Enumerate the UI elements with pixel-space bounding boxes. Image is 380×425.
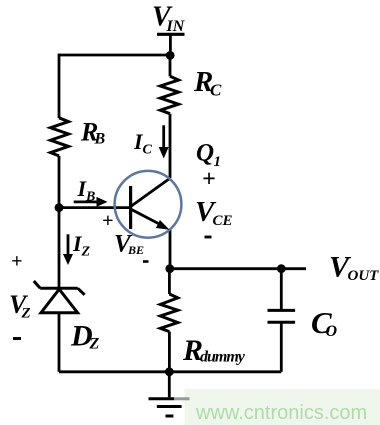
svg-text:Z: Z <box>81 245 91 260</box>
svg-text:dummy: dummy <box>200 349 246 366</box>
svg-text:C: C <box>143 143 153 158</box>
svg-text:CE: CE <box>213 213 233 229</box>
svg-text:www.cntronics.com: www.cntronics.com <box>195 402 367 424</box>
svg-text:O: O <box>326 323 338 340</box>
svg-text:+: + <box>102 210 113 232</box>
svg-text:Q: Q <box>196 140 214 167</box>
svg-text:Z: Z <box>21 306 31 322</box>
svg-text:Z: Z <box>89 336 100 353</box>
svg-text:OUT: OUT <box>348 268 380 284</box>
svg-text:+: + <box>202 167 216 193</box>
svg-text:IN: IN <box>166 18 186 35</box>
svg-text:B: B <box>85 190 95 205</box>
svg-text:BE: BE <box>127 243 144 257</box>
svg-text:B: B <box>94 131 106 148</box>
svg-text:C: C <box>210 81 222 100</box>
svg-text:+: + <box>11 251 22 273</box>
